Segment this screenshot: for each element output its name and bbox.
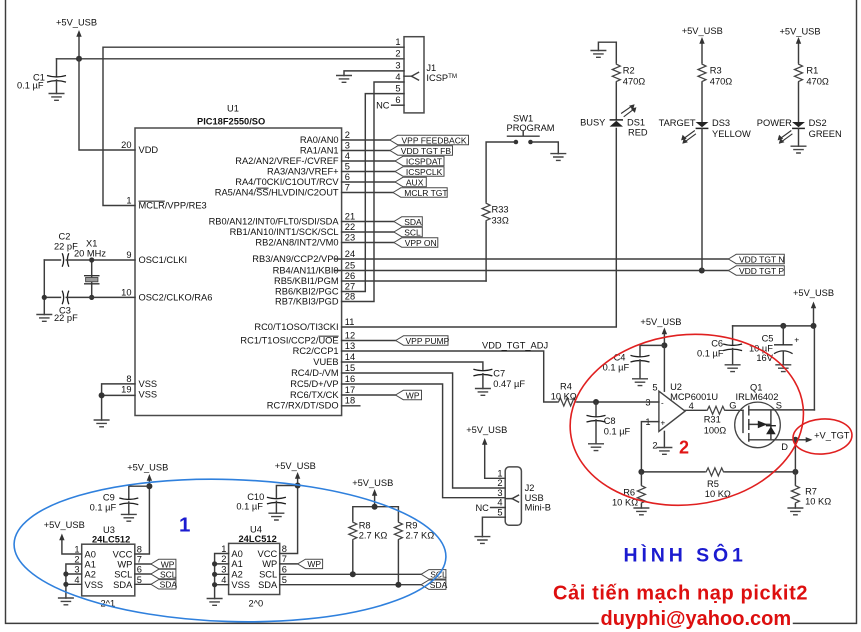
svg-text:VDD TGT N: VDD TGT N xyxy=(739,254,785,264)
wire U1 pin7 xyxy=(342,192,393,194)
svg-text:RC7/RX/DT/SDO: RC7/RX/DT/SDO xyxy=(267,401,339,411)
ground C9 xyxy=(121,514,137,521)
svg-text:+5V_USB: +5V_USB xyxy=(793,288,834,298)
wire crystal left leg xyxy=(43,260,45,315)
svg-text:WP: WP xyxy=(406,390,420,400)
wire U1 pin13 VDD_TGT_ADJ xyxy=(342,341,557,403)
power +5V_USB above R1 xyxy=(780,27,821,63)
svg-text:4: 4 xyxy=(74,575,79,585)
wire J2 pin5 to ground xyxy=(482,517,505,536)
node C5 junction xyxy=(780,323,786,329)
net flag VDD TGT FB xyxy=(390,146,453,156)
ground J1 pin3 xyxy=(336,76,352,83)
svg-text:+V_TGT: +V_TGT xyxy=(814,431,850,441)
wire J1 pin6 stub NC xyxy=(392,104,404,106)
wire SW1 right to ground xyxy=(533,142,559,154)
svg-text:R4: R4 xyxy=(560,382,572,392)
capacitor C3 xyxy=(44,291,91,323)
svg-text:10: 10 xyxy=(121,287,131,297)
svg-text:VCC: VCC xyxy=(258,549,278,559)
ground U2 xyxy=(656,448,672,455)
svg-text:20 MHz: 20 MHz xyxy=(74,249,106,259)
wire U1 pin22 xyxy=(342,231,394,233)
svg-text:R33: R33 xyxy=(492,205,509,215)
transistor Q1 IRLM6402 xyxy=(729,382,814,452)
svg-text:5: 5 xyxy=(652,383,657,393)
wire U1 pin6 xyxy=(342,181,396,183)
capacitor C4 xyxy=(603,345,665,378)
wire U1 pin24 to flag xyxy=(335,258,728,260)
net flag WP xyxy=(396,390,422,400)
resistor R3 470 xyxy=(698,63,732,123)
svg-text:3: 3 xyxy=(345,141,350,151)
power +5V_USB above C10 xyxy=(275,461,316,486)
wire U1 pin23 xyxy=(342,242,394,244)
svg-text:-: - xyxy=(661,399,664,408)
svg-text:14: 14 xyxy=(345,352,355,362)
svg-text:0.47 µF: 0.47 µF xyxy=(493,379,525,389)
svg-text:R9: R9 xyxy=(406,521,418,531)
ground J2 xyxy=(474,537,490,544)
wire SW1 left to R33 xyxy=(486,142,513,202)
svg-text:3: 3 xyxy=(74,565,79,575)
svg-text:RA1/AN1: RA1/AN1 xyxy=(300,146,339,156)
node R9 to SDA xyxy=(395,582,401,588)
svg-text:A1: A1 xyxy=(85,560,96,570)
power +5V_USB above R8 R9 xyxy=(352,478,393,507)
ground C8 xyxy=(588,444,604,451)
svg-text:470Ω: 470Ω xyxy=(623,77,646,87)
svg-text:A0: A0 xyxy=(85,550,96,560)
svg-text:470Ω: 470Ω xyxy=(710,77,733,87)
wire U1 pin5 xyxy=(342,171,396,173)
svg-text:0.1 µF: 0.1 µF xyxy=(236,502,263,512)
net flag ICSPCLK xyxy=(395,167,444,177)
wire U2 pin2 to ground xyxy=(663,431,665,447)
svg-text:1: 1 xyxy=(179,514,190,537)
svg-text:HÌNH SÔ1: HÌNH SÔ1 xyxy=(624,543,747,567)
svg-text:MCLR TGT: MCLR TGT xyxy=(404,188,447,198)
svg-text:RED: RED xyxy=(628,128,648,138)
svg-text:2: 2 xyxy=(497,478,502,488)
svg-text:18: 18 xyxy=(345,396,355,406)
svg-text:C9: C9 xyxy=(103,493,115,503)
net flag SCL bus xyxy=(421,570,447,580)
svg-text:WP: WP xyxy=(117,560,132,570)
svg-text:RC2/CCP1: RC2/CCP1 xyxy=(293,346,339,356)
svg-text:S: S xyxy=(776,401,782,411)
svg-text:WP: WP xyxy=(262,559,277,569)
wire U1 pin3 xyxy=(342,150,390,152)
wire U1 pin26 to R33 xyxy=(342,280,487,282)
U1 right pin names xyxy=(209,135,340,411)
svg-text:+5V_USB: +5V_USB xyxy=(780,27,821,37)
resistor R9 2.7K xyxy=(394,521,434,585)
wire Q1 source rail up xyxy=(733,326,815,410)
resistor R7 10K xyxy=(791,484,831,508)
svg-text:duyphi@yahoo.com: duyphi@yahoo.com xyxy=(601,608,792,630)
svg-text:2: 2 xyxy=(221,554,226,564)
svg-text:2^0: 2^0 xyxy=(249,599,264,609)
node U4 A1 xyxy=(212,561,217,566)
ground VSS xyxy=(94,420,110,427)
svg-text:RC1/T1OSI/CCP2/UOE: RC1/T1OSI/CCP2/UOE xyxy=(240,336,338,346)
svg-text:20: 20 xyxy=(121,140,131,150)
svg-text:POWER: POWER xyxy=(757,118,792,128)
svg-text:C10: C10 xyxy=(247,492,264,502)
svg-text:2.7 KΩ: 2.7 KΩ xyxy=(359,531,388,541)
node U4 VSS xyxy=(212,582,217,587)
power +5V_USB (top left) xyxy=(56,18,97,59)
svg-text:5: 5 xyxy=(137,575,142,585)
node C9 junction xyxy=(146,483,152,489)
ground C7 xyxy=(475,389,491,396)
connector J1 ICSP xyxy=(376,37,457,113)
connector J2 USB Mini-B xyxy=(475,467,550,525)
svg-text:R7: R7 xyxy=(805,487,817,497)
svg-text:RA5/AN4/SS/HLVDIN/C2OUT: RA5/AN4/SS/HLVDIN/C2OUT xyxy=(215,188,339,198)
wire DS2 to ground xyxy=(798,128,800,146)
svg-text:VCC: VCC xyxy=(113,550,133,560)
svg-text:6: 6 xyxy=(282,565,287,575)
svg-text:C6: C6 xyxy=(711,339,723,349)
svg-text:ICSPCLK: ICSPCLK xyxy=(406,167,443,177)
LED DS3 YELLOW xyxy=(659,118,751,144)
ground crystal xyxy=(36,315,52,322)
svg-text:J1: J1 xyxy=(426,63,436,73)
node C8 junction xyxy=(593,399,599,405)
svg-text:D: D xyxy=(781,442,788,452)
wire U3 SCL xyxy=(135,573,151,575)
annotation blue ellipse 1 xyxy=(12,473,448,628)
svg-text:10 KΩ: 10 KΩ xyxy=(551,391,577,401)
svg-text:0.1 µF: 0.1 µF xyxy=(603,363,630,373)
svg-text:3: 3 xyxy=(395,61,400,71)
svg-text:SW1: SW1 xyxy=(513,114,533,124)
switch SW1 PROGRAM xyxy=(507,114,555,145)
wire +5V to C1 xyxy=(57,58,80,60)
svg-text:R2: R2 xyxy=(623,66,635,76)
annotation red ellipse V_TGT xyxy=(792,417,853,456)
power +5V_USB opamp right xyxy=(793,288,834,326)
wire U2 plus input xyxy=(641,422,659,472)
svg-text:RB7/KBI3/PGD: RB7/KBI3/PGD xyxy=(275,297,339,307)
svg-text:NC: NC xyxy=(376,101,390,111)
svg-text:A1: A1 xyxy=(231,559,242,569)
svg-text:27: 27 xyxy=(345,282,355,292)
net flag SDA U3 xyxy=(151,580,178,590)
svg-text:5: 5 xyxy=(497,507,502,517)
svg-text:+5V_USB: +5V_USB xyxy=(275,461,316,471)
node R5 right junction xyxy=(792,469,798,475)
ground U3 xyxy=(58,598,74,605)
svg-text:OSC1/CLKI: OSC1/CLKI xyxy=(139,255,188,265)
svg-text:6: 6 xyxy=(137,565,142,575)
wire R8 R9 top rail xyxy=(353,507,399,521)
wire U4 VCC xyxy=(280,486,298,554)
net flag VDD TGT N xyxy=(728,254,784,264)
ground C4 xyxy=(632,379,648,386)
svg-text:1: 1 xyxy=(221,544,226,554)
svg-text:USB: USB xyxy=(525,493,544,503)
svg-text:RB0/AN12/INT0/FLT0/SDI/SDA: RB0/AN12/INT0/FLT0/SDI/SDA xyxy=(209,217,340,227)
resistor R6 10K xyxy=(612,472,645,508)
wire SCL bus xyxy=(280,573,421,575)
svg-text:0.1 µF: 0.1 µF xyxy=(90,503,117,513)
ground DS2 xyxy=(791,146,807,153)
net flag VPP ON xyxy=(394,238,438,248)
svg-text:+5V_USB: +5V_USB xyxy=(44,520,85,530)
svg-text:VDD TGT FB: VDD TGT FB xyxy=(401,146,452,156)
annotation red ellipse 2 xyxy=(561,322,813,517)
svg-text:12: 12 xyxy=(345,331,355,341)
svg-text:U1: U1 xyxy=(227,104,239,114)
svg-text:4: 4 xyxy=(395,72,400,82)
svg-text:1: 1 xyxy=(395,37,400,47)
resistor R5 10K feedback xyxy=(641,468,795,499)
power +5V_USB above R3 xyxy=(682,26,723,63)
wire U3 WP xyxy=(135,563,151,565)
svg-text:R1: R1 xyxy=(806,66,818,76)
svg-text:RC4/D-/VM: RC4/D-/VM xyxy=(291,368,339,378)
svg-text:RB1/AN10/INT1/SCK/SCL: RB1/AN10/INT1/SCK/SCL xyxy=(230,227,339,237)
svg-text:DS1: DS1 xyxy=(627,118,645,128)
node Q1 drain junction xyxy=(792,437,798,443)
svg-text:RA2/AN2/VREF-/CVREF: RA2/AN2/VREF-/CVREF xyxy=(235,156,339,166)
svg-text:VDD_TGT_ADJ: VDD_TGT_ADJ xyxy=(482,341,548,351)
svg-text:R31: R31 xyxy=(704,415,721,425)
net flag WP U4 xyxy=(298,559,323,569)
svg-text:8: 8 xyxy=(282,544,287,554)
power +5V_USB above J2 xyxy=(466,425,507,478)
wire U1 pin21 xyxy=(342,221,394,223)
net flag SCL U3 xyxy=(151,569,177,579)
node +V_TGT arrow xyxy=(798,431,850,443)
svg-text:2: 2 xyxy=(679,438,689,458)
node +5V R8R9 xyxy=(372,504,378,510)
svg-text:6: 6 xyxy=(395,95,400,105)
wire U1 pin4 xyxy=(342,160,396,162)
svg-text:Cải tiến mạch nạp pickit2: Cải tiến mạch nạp pickit2 xyxy=(553,583,808,605)
node U3 VSS xyxy=(63,582,68,587)
svg-text:TARGET: TARGET xyxy=(659,118,696,128)
svg-text:DS2: DS2 xyxy=(809,118,827,128)
svg-text:VSS: VSS xyxy=(85,580,104,590)
svg-text:C8: C8 xyxy=(604,416,616,426)
LED DS2 GREEN xyxy=(757,118,842,144)
svg-text:2.7 KΩ: 2.7 KΩ xyxy=(406,531,435,541)
svg-text:26: 26 xyxy=(345,271,355,281)
svg-text:25: 25 xyxy=(345,261,355,271)
net flag ICSPDAT xyxy=(395,156,444,166)
capacitor C1 xyxy=(17,59,66,94)
ground C5 xyxy=(775,365,791,372)
net flag VPP FEEDBACK xyxy=(390,135,469,145)
wire U2 output to R31 xyxy=(685,409,706,411)
wire drain to R7 xyxy=(794,440,796,484)
node +5V rail corner xyxy=(811,323,817,329)
svg-text:+: + xyxy=(661,419,666,428)
svg-text:X1: X1 xyxy=(86,239,97,249)
svg-text:R5: R5 xyxy=(707,479,719,489)
svg-text:23: 23 xyxy=(345,233,355,243)
net flag VPP PUMP xyxy=(396,336,450,346)
svg-text:NC: NC xyxy=(475,503,489,513)
ground R7 xyxy=(787,508,803,515)
svg-text:7: 7 xyxy=(345,183,350,193)
svg-text:2: 2 xyxy=(395,49,400,59)
svg-text:0.1 µF: 0.1 µF xyxy=(697,349,724,359)
net flag VDD TGT P xyxy=(728,266,784,276)
wire U3 SDA xyxy=(135,583,151,585)
node VSS junction xyxy=(99,392,105,398)
svg-text:RB5/KBI1/PGM: RB5/KBI1/PGM xyxy=(274,276,339,286)
svg-text:BUSY: BUSY xyxy=(580,118,605,128)
svg-text:2: 2 xyxy=(345,130,350,140)
ground C6 xyxy=(725,365,741,372)
wire J2 pin4 stub NC xyxy=(491,507,506,509)
svg-text:WP: WP xyxy=(307,559,321,569)
wire SDA bus xyxy=(280,584,421,586)
svg-text:24: 24 xyxy=(345,249,355,259)
wire U1 pin2 xyxy=(342,139,390,141)
node +5V junction xyxy=(76,56,82,62)
wire J1 pin4 to U1 pin28 xyxy=(342,82,404,302)
svg-text:9: 9 xyxy=(126,250,131,260)
svg-text:5: 5 xyxy=(282,575,287,585)
net flag SDA bus xyxy=(421,580,448,590)
resistor R31 100 xyxy=(704,406,743,435)
svg-text:VSS: VSS xyxy=(139,379,158,389)
node U2 pin5 junction xyxy=(661,342,667,348)
svg-text:3: 3 xyxy=(221,565,226,575)
resistor R33 33ohm xyxy=(482,202,509,281)
U1 right pin numbers xyxy=(345,130,355,406)
svg-text:AUX: AUX xyxy=(406,177,424,187)
svg-text:+5V_USB: +5V_USB xyxy=(352,478,393,488)
svg-text:3: 3 xyxy=(497,488,502,498)
op-amp U2 MCP6001U xyxy=(645,345,718,450)
wire U3 VCC xyxy=(135,486,150,554)
LED DS1 RED xyxy=(580,104,648,138)
node C10 junction xyxy=(295,483,301,489)
IC U4 24LC512 xyxy=(221,525,287,609)
svg-text:VSS: VSS xyxy=(139,390,158,400)
capacitor C2 xyxy=(44,232,91,267)
resistor R8 2.7K xyxy=(349,521,388,575)
svg-text:SCL: SCL xyxy=(259,570,277,580)
svg-text:RB4/AN11/KBI0: RB4/AN11/KBI0 xyxy=(273,266,339,276)
capacitor C9 xyxy=(90,486,150,514)
node U4 A2 xyxy=(212,572,217,577)
wire J1 pin5 to U1 pin27 xyxy=(342,94,404,292)
svg-text:28: 28 xyxy=(345,292,355,302)
svg-text:VSS: VSS xyxy=(231,580,250,590)
svg-text:7: 7 xyxy=(282,554,287,564)
svg-text:10 µF: 10 µF xyxy=(749,344,773,354)
svg-text:100Ω: 100Ω xyxy=(704,426,727,436)
svg-text:2: 2 xyxy=(652,441,657,451)
svg-text:RA0/AN0: RA0/AN0 xyxy=(300,135,339,145)
svg-text:15: 15 xyxy=(345,363,355,373)
svg-text:ICSPTM: ICSPTM xyxy=(426,73,457,83)
svg-text:SDA: SDA xyxy=(258,580,278,590)
svg-text:U4: U4 xyxy=(250,525,262,535)
wire U3 A1 A2 VSS to ground xyxy=(66,564,82,598)
svg-text:Mini-B: Mini-B xyxy=(525,503,551,513)
svg-text:IRLM6402: IRLM6402 xyxy=(736,392,779,402)
resistor R2 470 xyxy=(612,42,645,120)
wire U1 pin14 to C7 xyxy=(342,362,483,370)
svg-text:+: + xyxy=(794,335,799,345)
svg-text:VDD TGT P: VDD TGT P xyxy=(739,266,784,276)
svg-text:6: 6 xyxy=(345,172,350,182)
svg-text:16: 16 xyxy=(345,374,355,384)
wire DS3 down to VDD TGT P xyxy=(701,128,703,270)
svg-text:+5V_USB: +5V_USB xyxy=(127,463,168,473)
svg-text:SCL: SCL xyxy=(160,569,177,579)
svg-text:DS3: DS3 xyxy=(712,118,730,128)
ground under C1 xyxy=(49,94,65,101)
node R8 to SCL xyxy=(350,571,356,577)
svg-text:ICSPDAT: ICSPDAT xyxy=(406,156,442,166)
svg-text:C2: C2 xyxy=(59,232,71,242)
svg-text:16V: 16V xyxy=(756,353,773,363)
wire +5V down to VDD pin20 xyxy=(79,59,135,150)
svg-text:RA3/AN3/VREF+: RA3/AN3/VREF+ xyxy=(267,167,339,177)
svg-text:WP: WP xyxy=(161,559,175,569)
svg-text:8: 8 xyxy=(137,545,142,555)
node U3 A2 xyxy=(63,571,68,576)
svg-text:4: 4 xyxy=(689,401,694,411)
power +5V_USB U3 A0 xyxy=(44,520,85,554)
ground R6 xyxy=(633,508,649,515)
svg-text:RC0/T1OSO/TI3CKI: RC0/T1OSO/TI3CKI xyxy=(254,322,338,332)
svg-text:19: 19 xyxy=(121,385,131,395)
svg-text:0.1 µF: 0.1 µF xyxy=(17,81,44,91)
net flag WP U3 xyxy=(151,559,176,569)
crystal X1 xyxy=(74,239,106,298)
svg-text:22 pF: 22 pF xyxy=(54,313,78,323)
svg-text:24LC512: 24LC512 xyxy=(239,534,277,544)
capacitor C7 0.47uF xyxy=(473,369,525,390)
svg-text:C5: C5 xyxy=(762,334,774,344)
node C3 junction xyxy=(42,295,47,300)
svg-text:7: 7 xyxy=(137,555,142,565)
wire U1 pin17 xyxy=(342,394,396,396)
svg-text:C7: C7 xyxy=(493,369,505,379)
svg-text:470Ω: 470Ω xyxy=(806,77,829,87)
svg-text:MCLR/VPP/RE3: MCLR/VPP/RE3 xyxy=(139,201,207,211)
svg-text:0.1 µF: 0.1 µF xyxy=(604,427,631,437)
svg-text:SDA: SDA xyxy=(113,580,133,590)
capacitor C8 xyxy=(587,402,631,444)
node OSC1 junction xyxy=(89,257,94,262)
svg-text:17: 17 xyxy=(345,385,355,395)
wire U1 pin12 xyxy=(342,340,396,342)
capacitor C6 xyxy=(697,326,742,365)
svg-text:RA4/T0CKI/C1OUT/RCV: RA4/T0CKI/C1OUT/RCV xyxy=(235,177,339,187)
svg-text:PROGRAM: PROGRAM xyxy=(507,123,555,133)
net flag SCL xyxy=(394,227,422,237)
svg-text:J2: J2 xyxy=(525,483,535,493)
svg-text:8: 8 xyxy=(126,374,131,384)
wire U1 pin25 to flag xyxy=(335,270,728,272)
wire OSC2 xyxy=(92,296,135,298)
svg-text:SDA: SDA xyxy=(404,217,422,227)
wire OSC1 xyxy=(92,259,135,261)
wire U1 pin15 to J2 pin2 xyxy=(342,373,506,488)
